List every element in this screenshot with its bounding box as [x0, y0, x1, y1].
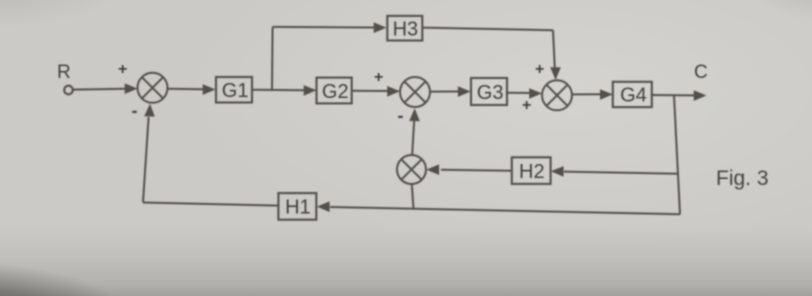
wire S2 to G3 — [430, 86, 471, 97]
summing junction S2 — [400, 77, 430, 107]
node branch after G1 — [271, 27, 274, 90]
svg-text:H3: H3 — [393, 19, 419, 41]
wire H2 to summing junction S4 — [426, 164, 512, 175]
svg-text:+: + — [535, 61, 544, 78]
node R input terminal — [64, 86, 73, 95]
wire H1 to left corner — [143, 203, 278, 206]
label + at S3 left — [522, 97, 531, 114]
label C — [694, 62, 708, 83]
wire S4 to S2 — [409, 108, 420, 155]
label + at S2 — [374, 69, 383, 86]
block H2 — [512, 157, 551, 184]
wire S4 down to feedback line — [412, 184, 414, 209]
svg-text:G1: G1 — [222, 80, 249, 102]
block G4 — [613, 82, 652, 107]
svg-text:-: - — [398, 106, 404, 126]
block G3 — [471, 78, 507, 105]
wire S1 to G1 — [168, 84, 216, 95]
block H1 — [278, 193, 316, 220]
svg-text:+: + — [522, 97, 531, 114]
svg-text:G3: G3 — [477, 82, 504, 104]
wire S3 to G4 — [572, 89, 613, 100]
svg-text:G4: G4 — [620, 85, 647, 107]
wire output branch down — [674, 95, 680, 214]
svg-text:H1: H1 — [285, 197, 311, 219]
svg-text:+: + — [374, 69, 383, 86]
wire branch to H2 — [551, 166, 678, 177]
svg-text:G2: G2 — [322, 81, 349, 103]
wire G3 to S3 — [507, 88, 542, 99]
summing junction S1 — [138, 73, 168, 103]
label R — [57, 62, 71, 83]
label Fig. 3 — [716, 167, 769, 190]
wire bottom feedback line to H1 — [317, 201, 680, 214]
svg-text:C: C — [694, 62, 708, 83]
summing junction S3 — [542, 80, 572, 110]
svg-text:+: + — [118, 61, 127, 78]
svg-text:-: - — [132, 101, 138, 121]
block G2 — [317, 78, 352, 104]
wire H3 to summing junction S3 — [422, 28, 561, 80]
svg-text:R: R — [57, 62, 71, 83]
label - at S1 — [132, 101, 138, 121]
label + at S1 — [118, 61, 127, 78]
wire G4 to output C — [652, 90, 707, 101]
svg-text:Fig. 3: Fig. 3 — [716, 167, 769, 190]
label + at S3 top — [535, 61, 544, 78]
block H3 — [387, 16, 422, 41]
wire branch to H3 — [273, 22, 387, 33]
label - at S2 — [398, 106, 404, 126]
summing junction S4 — [397, 155, 426, 184]
wire G1 to G2 — [252, 85, 317, 96]
block G1 — [216, 77, 252, 103]
wire left corner up to S1 — [143, 104, 155, 203]
wire G2 to summing junction S2 — [352, 86, 400, 97]
svg-text:H2: H2 — [519, 161, 545, 183]
wire R to summing junction S1 — [73, 83, 137, 94]
